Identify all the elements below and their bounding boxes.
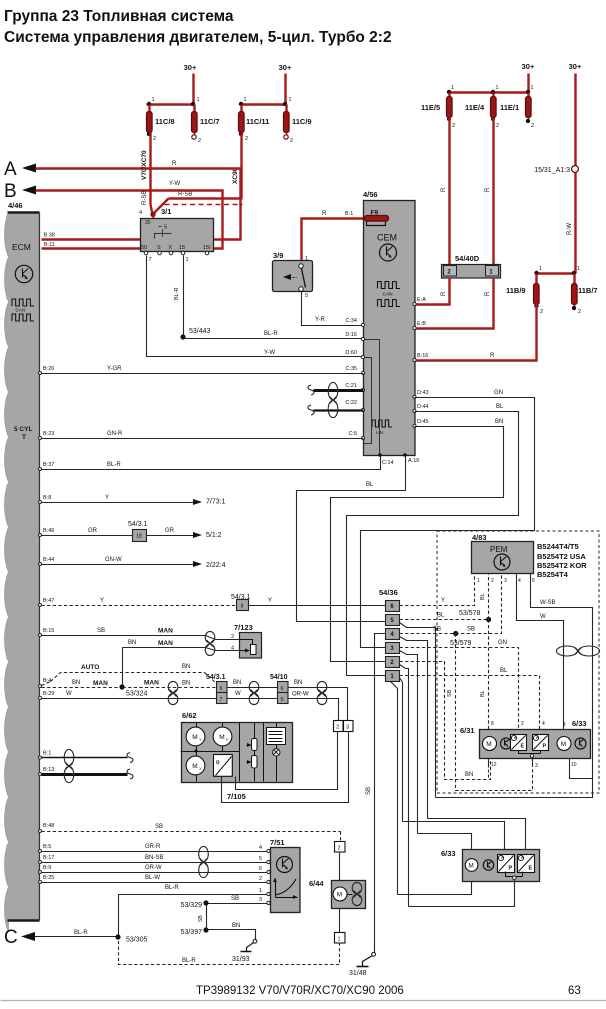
svg-text:8: 8 [241, 604, 244, 610]
svg-text:B:38: B:38 [44, 233, 55, 239]
wire W from ECM B:29 to 54/3.1 pin7 [39, 691, 217, 700]
wire W from 54/3.1 to 54/10 [227, 691, 278, 699]
svg-text:12: 12 [491, 762, 497, 768]
svg-text:B:48: B:48 [43, 823, 54, 829]
twisted pair to 7/123 [205, 631, 215, 655]
svg-text:31/93: 31/93 [232, 956, 250, 963]
svg-text:2: 2 [540, 309, 543, 315]
svg-text:18: 18 [136, 534, 142, 540]
svg-text:7/123: 7/123 [234, 623, 253, 632]
svg-text:W: W [540, 614, 546, 620]
svg-text:11C/11: 11C/11 [246, 117, 269, 126]
svg-text:BN: BN [233, 680, 241, 686]
wire dashed from B:48 row to 6/44 pin2 [340, 832, 342, 842]
svg-text:A:16: A:16 [408, 458, 419, 464]
svg-text:W: W [235, 691, 241, 697]
svg-text:2: 2 [231, 634, 234, 640]
wire Y dashed 54/36 pin6 to PEM pin1 [400, 574, 475, 606]
svg-text:2: 2 [521, 721, 524, 727]
6/33 lower motor [465, 859, 478, 872]
power 30+ feed right group [522, 62, 535, 93]
wire BL-R from ECM B:37 to CEM C:14 [39, 456, 381, 471]
6/31 motor [483, 737, 497, 751]
wire SB dashed node 53/579 to PEM pin3 [456, 574, 502, 634]
node 53/397 [181, 927, 209, 936]
footer document number [196, 985, 404, 997]
footer page number [1, 985, 606, 1001]
svg-text:B:4: B:4 [43, 678, 51, 684]
svg-text:θ: θ [216, 760, 220, 767]
svg-text:1: 1 [244, 97, 247, 103]
twisted pair C:21 C:22 [308, 382, 364, 417]
svg-text:2: 2 [245, 136, 248, 142]
6/31 pin 12 stub [488, 759, 490, 780]
svg-text:B:26: B:26 [43, 366, 54, 372]
wire BL dashed 54/36 pin5 to node 53/578 [400, 613, 489, 620]
off-page arrow A [4, 159, 177, 180]
svg-text:B:11: B:11 [44, 242, 55, 248]
svg-text:2: 2 [578, 309, 581, 315]
svg-text:P: P [509, 866, 513, 872]
svg-text:M: M [192, 734, 197, 741]
wire BL from CEM D:44 to 54/36 pin1 [347, 404, 519, 676]
svg-text:C:22: C:22 [345, 400, 357, 406]
node 53/329 [181, 900, 209, 909]
fuse 11B/7 [572, 274, 598, 305]
svg-text:C:14: C:14 [382, 460, 394, 466]
svg-text:M: M [192, 763, 197, 770]
svg-text:B:16: B:16 [417, 353, 428, 359]
wire SB MAN from ECM B:15 to 7/123 pin2 [39, 628, 240, 641]
svg-text:7: 7 [149, 257, 152, 263]
svg-text:BL-R: BL-R [264, 331, 278, 337]
wire SB dashed node 53/579 to 6/31 pin3 [447, 634, 533, 791]
6/44 motor [333, 887, 347, 901]
svg-text:R: R [490, 353, 495, 359]
fuse 11C/9 [284, 105, 312, 133]
svg-text:53/305: 53/305 [126, 937, 148, 944]
node 53/324 [119, 684, 147, 697]
svg-text:B: B [4, 181, 17, 202]
svg-text:W-SB: W-SB [540, 600, 556, 606]
wire MAN BN dashed from 53/324 to 54/3.1 pin6 [123, 680, 217, 688]
svg-text:SB: SB [366, 787, 372, 795]
6/31 pin labels bottom [491, 762, 577, 769]
svg-text:7: 7 [219, 697, 222, 703]
power 30+ feed left group 1 [184, 63, 197, 105]
svg-text:30+: 30+ [522, 62, 535, 71]
connector 54/40D [442, 254, 501, 278]
svg-text:5: 5 [259, 856, 262, 862]
svg-text:50: 50 [141, 245, 147, 251]
svg-text:11C/7: 11C/7 [200, 117, 220, 126]
6/31 E box [511, 735, 527, 751]
wire BL dashed node 53/578 to 6/31 pin8 [480, 620, 489, 730]
svg-text:B:1: B:1 [345, 211, 353, 217]
title line 2 [4, 29, 392, 46]
CEM fuse F9 [365, 210, 389, 226]
fuel pump 7/51 body [270, 838, 300, 913]
CEM clock symbol [380, 244, 397, 261]
6/31 pin labels top [491, 721, 566, 728]
svg-text:11C/8: 11C/8 [155, 117, 175, 126]
svg-text:BN: BN [128, 640, 136, 646]
svg-text:1: 1 [289, 97, 292, 103]
svg-text:6/33: 6/33 [441, 849, 456, 858]
svg-text:BL-R: BL-R [165, 885, 179, 891]
fuse 11E/1 [500, 93, 531, 118]
node 15/31_A1:3 [534, 166, 578, 174]
power 30+ feed far right [569, 62, 582, 166]
svg-text:5: 5 [305, 293, 308, 299]
6/31 P box [533, 735, 549, 751]
wire red bus group 2 [239, 97, 292, 106]
svg-text:2/22:4: 2/22:4 [206, 562, 226, 569]
svg-text:2: 2 [491, 578, 494, 584]
svg-text:BL: BL [480, 690, 486, 697]
svg-text:53/578: 53/578 [459, 610, 481, 617]
svg-text:R-W: R-W [567, 223, 573, 235]
svg-text:53/329: 53/329 [181, 902, 203, 909]
svg-text:3: 3 [535, 763, 538, 769]
svg-text:R: R [172, 161, 177, 167]
PEM label [490, 545, 508, 554]
CEM CAN symbol [378, 282, 401, 307]
svg-text:5: 5 [164, 225, 167, 231]
svg-text:R: R [441, 291, 447, 296]
twisted pair at x173 [168, 681, 178, 704]
svg-text:SB: SB [155, 824, 163, 830]
pin 2 11B/9 [534, 304, 543, 315]
fuse 11B/9 [506, 274, 539, 305]
svg-text:SB: SB [467, 627, 475, 633]
svg-text:M: M [561, 741, 566, 748]
wire motor return to 54/36 pin1 area [391, 682, 398, 895]
pin 2 stub 11C/7 [192, 133, 201, 145]
svg-text:R-SB: R-SB [142, 191, 148, 205]
wire red bus group 1 [147, 97, 200, 106]
wire SB from 54/36 pin4 to ground 31/48 [366, 634, 386, 953]
connector 54/36 [379, 588, 400, 682]
wire dashed variant XC90 [165, 204, 243, 206]
pin2 labels 11E [447, 117, 499, 129]
wire BN from CEM D:45 to 54/36 pin2 [331, 419, 504, 662]
6/33 lower P box [498, 855, 515, 873]
fuse 11C/8 [147, 105, 175, 133]
svg-text:4: 4 [139, 210, 142, 216]
ignition switch key symbol [155, 225, 172, 239]
wire from 54/36 pin2 down right [400, 665, 409, 907]
wire BL dashed 54/36 pin1 to 6/31 pin4 [400, 668, 540, 730]
fan module 6/31 6/33 body [460, 719, 591, 759]
svg-text:2: 2 [290, 138, 293, 144]
power 30+ feed left group 2 [279, 63, 292, 105]
svg-text:3/9: 3/9 [273, 251, 283, 260]
svg-text:7/73:1: 7/73:1 [206, 499, 226, 506]
svg-text:7/105: 7/105 [227, 792, 246, 801]
fan module 6/33 lower body [441, 849, 540, 882]
node 53/305 [115, 934, 147, 943]
6/44 pin 1 box [335, 933, 346, 944]
svg-text:11C/9: 11C/9 [292, 117, 312, 126]
wire SB dashed 54/36 pin4 to node 53/579 [400, 627, 456, 634]
svg-text:11B/9: 11B/9 [506, 286, 526, 295]
svg-text:BL: BL [366, 482, 374, 488]
wire BL dashed node 53/578 to PEM pin2 [480, 574, 489, 620]
wire BN-SB from ECM B:17 to 7/51 pin5 [39, 855, 268, 864]
svg-text:6: 6 [259, 866, 262, 872]
svg-text:B:1: B:1 [43, 751, 51, 757]
svg-text:R: R [441, 187, 447, 192]
wire R from 11B/9 to CEM B:16 [415, 304, 537, 361]
pin 2 stub 11B/7 [572, 305, 581, 316]
svg-text:3: 3 [259, 897, 262, 903]
6/44 fan symbol [348, 882, 362, 905]
svg-text:BL: BL [480, 593, 486, 600]
ECM module 4/46 body [5, 201, 40, 932]
svg-text:A: A [4, 159, 17, 180]
wire W-SB continue to lower 6/33 feed [436, 779, 593, 798]
svg-text:MAN: MAN [158, 628, 173, 635]
wire BL-R dashed 6/44 pin1 to 53/305 [119, 938, 340, 965]
7/51 clock symbol [277, 857, 293, 873]
fuse 11C/11 [239, 105, 270, 133]
svg-text:D:43: D:43 [417, 390, 429, 396]
svg-text:SB: SB [433, 627, 441, 633]
svg-text:B:37: B:37 [43, 462, 54, 468]
ECM label [12, 242, 31, 252]
wire W from PEM pin4 [517, 574, 564, 730]
6/62 motor Mx [186, 749, 205, 781]
wire Y-W from ECM B:11 to arrow B [36, 191, 223, 249]
svg-text:BN: BN [294, 680, 302, 686]
ground 31/48 [349, 952, 376, 977]
CEM right pin labels [413, 297, 429, 428]
svg-text:54/3.1: 54/3.1 [206, 674, 226, 681]
svg-text:C:5: C:5 [348, 431, 357, 437]
svg-text:54/3.1: 54/3.1 [128, 521, 148, 528]
svg-text:D:45: D:45 [417, 419, 429, 425]
wire BN dashed 54/36 pin2 to 6/31 pin12 [400, 662, 491, 780]
wire BN from 54/10 to connector 2|3 [288, 680, 348, 721]
svg-text:SB: SB [198, 915, 204, 922]
wire R from 11E/4 to connector 54/40D [485, 118, 494, 265]
svg-text:15: 15 [179, 245, 185, 251]
svg-text:X: X [169, 245, 173, 251]
svg-text:GN-W: GN-W [105, 557, 122, 563]
heater resistor 7/123 [234, 623, 262, 658]
wire from 54/36 pin3 down right [400, 651, 418, 834]
svg-text:30+: 30+ [279, 63, 292, 72]
svg-text:E: E [529, 866, 533, 872]
wire GR-R from ECM B:5 to 7/51 pin4 [39, 844, 268, 853]
svg-text:ECM: ECM [12, 242, 31, 252]
pin 2 stub 11C/9 [284, 133, 293, 145]
svg-text:SB: SB [447, 689, 453, 697]
wire R from 54/40D pin1 to CEM E:B [415, 278, 494, 329]
svg-text:BN: BN [182, 681, 190, 687]
pin 2 11C/8 [147, 132, 156, 142]
svg-text:R-SB: R-SB [178, 192, 192, 198]
svg-text:30+: 30+ [569, 62, 582, 71]
svg-text:15I: 15I [203, 245, 211, 251]
wire BN MAN from node 53/324 to 7/123 pin4 [123, 640, 240, 688]
pin 2 11C/11 [239, 132, 248, 142]
svg-text:2: 2 [452, 123, 455, 129]
fuse 11E/5 [421, 93, 452, 118]
svg-text:OR-W: OR-W [292, 692, 309, 698]
PEM clock symbol [494, 554, 510, 570]
wire Y-GR from ECM B:26 to CEM C:35 [39, 366, 364, 375]
6/62 resistor 2 [247, 751, 258, 782]
svg-text:BN: BN [495, 419, 503, 425]
svg-text:P: P [543, 744, 547, 750]
CEM label [377, 233, 397, 243]
6/62 motor My [186, 723, 205, 752]
svg-text:M: M [337, 891, 342, 898]
wire Y-R from 3/9 pin5 to CEM C:34 [302, 292, 364, 326]
svg-text:BN: BN [465, 772, 473, 778]
svg-text:8: 8 [491, 721, 494, 727]
svg-text:B:44: B:44 [43, 557, 54, 563]
svg-text:11E/4: 11E/4 [465, 103, 485, 112]
svg-text:D:16: D:16 [345, 332, 357, 338]
wire BL from CEM A:16 to 54/36 pin5 [297, 456, 406, 622]
wire Y-W from 3/1 pin50 to CEM D:60 [147, 256, 364, 357]
node 53/578 [459, 610, 491, 622]
svg-text:Y-R: Y-R [315, 317, 325, 323]
svg-text:C:21: C:21 [345, 383, 357, 389]
twisted pair at x254 [249, 681, 259, 704]
svg-text:CAN: CAN [16, 308, 26, 313]
svg-text:B:9: B:9 [43, 865, 51, 871]
svg-text:R: R [322, 211, 327, 217]
svg-text:MAN: MAN [144, 680, 159, 687]
ignition switch 3/1 body [139, 207, 214, 252]
wire R-SB XC90 from 11C/11 to 3/1 [154, 133, 243, 214]
PEM module 4/83 body [472, 533, 534, 574]
svg-text:X: X [199, 767, 202, 771]
6/33 motor [557, 737, 571, 751]
wire R from 11E/5 to connector 54/40D [441, 118, 450, 265]
wire from 54/36 pin5 down right [400, 623, 436, 798]
svg-text:5/1:2: 5/1:2 [206, 532, 222, 539]
svg-text:B5254T4: B5254T4 [537, 570, 569, 579]
svg-text:M: M [468, 862, 473, 869]
twisted pair to 7/51 [199, 846, 209, 877]
svg-text:1: 1 [197, 97, 200, 103]
svg-text:E:B: E:B [417, 321, 426, 327]
6/62 motor Mf [213, 723, 232, 752]
variant region dashed box [437, 531, 599, 793]
svg-text:CEM: CEM [377, 233, 397, 243]
svg-text:CAN: CAN [383, 292, 394, 298]
svg-text:GN: GN [498, 640, 507, 646]
6/62 resistor 1 [247, 723, 258, 751]
svg-text:BL-R: BL-R [107, 462, 121, 468]
6/31 pin 3 stub [519, 751, 541, 765]
svg-text:BN: BN [232, 923, 240, 929]
svg-text:30: 30 [145, 220, 151, 226]
svg-text:3: 3 [346, 725, 349, 731]
wire GN dashed 54/36 pin3 to 6/31 pin2 [400, 640, 519, 730]
svg-text:6/33: 6/33 [572, 719, 587, 728]
ECM clock symbol [15, 265, 32, 282]
svg-text:4: 4 [259, 845, 262, 851]
svg-text:4: 4 [518, 578, 521, 584]
svg-text:1: 1 [259, 888, 262, 894]
CEM inner connector outline C [364, 358, 372, 444]
svg-text:GR: GR [165, 528, 175, 534]
svg-text:Группа 23 Топливная система: Группа 23 Топливная система [4, 8, 234, 25]
switch 3/9 contact [283, 264, 308, 299]
svg-text:GR-W: GR-W [145, 865, 162, 871]
svg-text:M: M [486, 741, 491, 748]
svg-text:B:47: B:47 [43, 598, 54, 604]
wire to lower 6/33 motor [418, 834, 472, 850]
7/51 level sender curve [273, 878, 298, 899]
svg-text:11B/7: 11B/7 [578, 286, 598, 295]
svg-text:2: 2 [153, 136, 156, 142]
wire red bus 11E group [447, 85, 534, 94]
wire R from ECM B:38 to arrow A [36, 169, 241, 240]
wire SB dashed from ECM B:48 [39, 823, 341, 833]
svg-text:XC90: XC90 [232, 167, 239, 184]
CEM LIN symbol [372, 420, 392, 435]
wire R-W down to 11B fuses [567, 173, 576, 274]
svg-text:AUTO: AUTO [81, 664, 99, 671]
svg-text:B:5: B:5 [43, 844, 51, 850]
wire W-SB from PEM pin5 [531, 574, 593, 779]
svg-text:E: E [521, 744, 525, 750]
svg-text:BN: BN [182, 664, 190, 670]
svg-text:SB: SB [231, 896, 239, 902]
svg-text:4/46: 4/46 [8, 201, 23, 210]
svg-text:1: 1 [531, 85, 534, 91]
svg-text:6/31: 6/31 [460, 726, 475, 735]
svg-text:B:46: B:46 [43, 528, 54, 534]
svg-text:4: 4 [231, 646, 234, 652]
svg-text:Y-W: Y-W [169, 181, 180, 187]
svg-text:Y: Y [105, 495, 109, 501]
junction at 3/1 pin 30 [150, 212, 155, 219]
CEM module 4/56 body [363, 190, 415, 456]
svg-text:Y-W: Y-W [264, 350, 275, 356]
svg-text:BL-R: BL-R [74, 930, 88, 936]
svg-text:V70/XC70: V70/XC70 [141, 150, 148, 180]
svg-text:2: 2 [198, 138, 201, 144]
svg-text:7/51: 7/51 [270, 838, 285, 847]
wire BN from 54/3.1 to 54/10 [227, 680, 278, 688]
twisted pair stub B:1 B:13 [39, 749, 134, 782]
wire BL-R from 53/443 to CEM D:16 [184, 331, 364, 339]
6/33 lower E box [518, 855, 535, 873]
CEM inner connector outline D [364, 340, 380, 455]
svg-text:M: M [219, 734, 224, 741]
off-page arrow C [4, 927, 119, 948]
wire Y from ECM B:8 to 7/73:1 [39, 495, 226, 506]
6/31 clock [501, 738, 512, 749]
svg-text:3: 3 [504, 578, 507, 584]
svg-text:6: 6 [280, 686, 283, 692]
wire GN-R from ECM B:23 to CEM C:5 [39, 431, 364, 440]
wire 6/62 sensor to connector 3 [222, 732, 349, 803]
svg-text:1: 1 [477, 578, 480, 584]
svg-text:53/579: 53/579 [450, 640, 472, 647]
svg-text:B:25: B:25 [43, 875, 54, 881]
6/33 lower clock [483, 860, 493, 870]
ground switch 31/93 [232, 939, 257, 963]
